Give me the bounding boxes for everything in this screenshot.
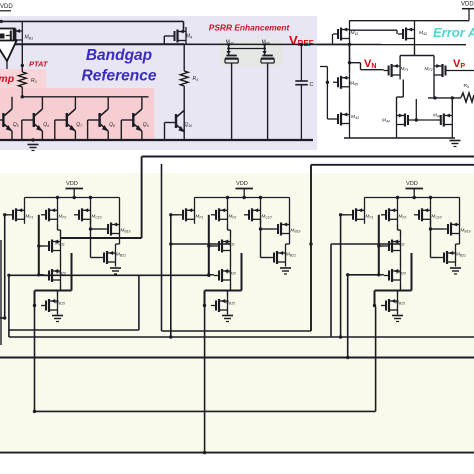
svg-text:PSRR Enhancement: PSRR Enhancement	[209, 23, 291, 33]
svg-text:Error A: Error A	[433, 25, 474, 40]
svg-text:VDD: VDD	[406, 181, 418, 187]
svg-text:Bandgap: Bandgap	[86, 47, 152, 64]
svg-text:VDD: VDD	[461, 2, 474, 8]
svg-text:Reference: Reference	[82, 68, 157, 85]
svg-text:VDD: VDD	[66, 181, 78, 187]
svg-text:C: C	[310, 82, 314, 88]
svg-text:PTAT: PTAT	[29, 60, 49, 69]
svg-text:Opamp: Opamp	[0, 73, 15, 85]
svg-text:VDD: VDD	[0, 4, 13, 10]
svg-text:VDD: VDD	[236, 181, 248, 187]
